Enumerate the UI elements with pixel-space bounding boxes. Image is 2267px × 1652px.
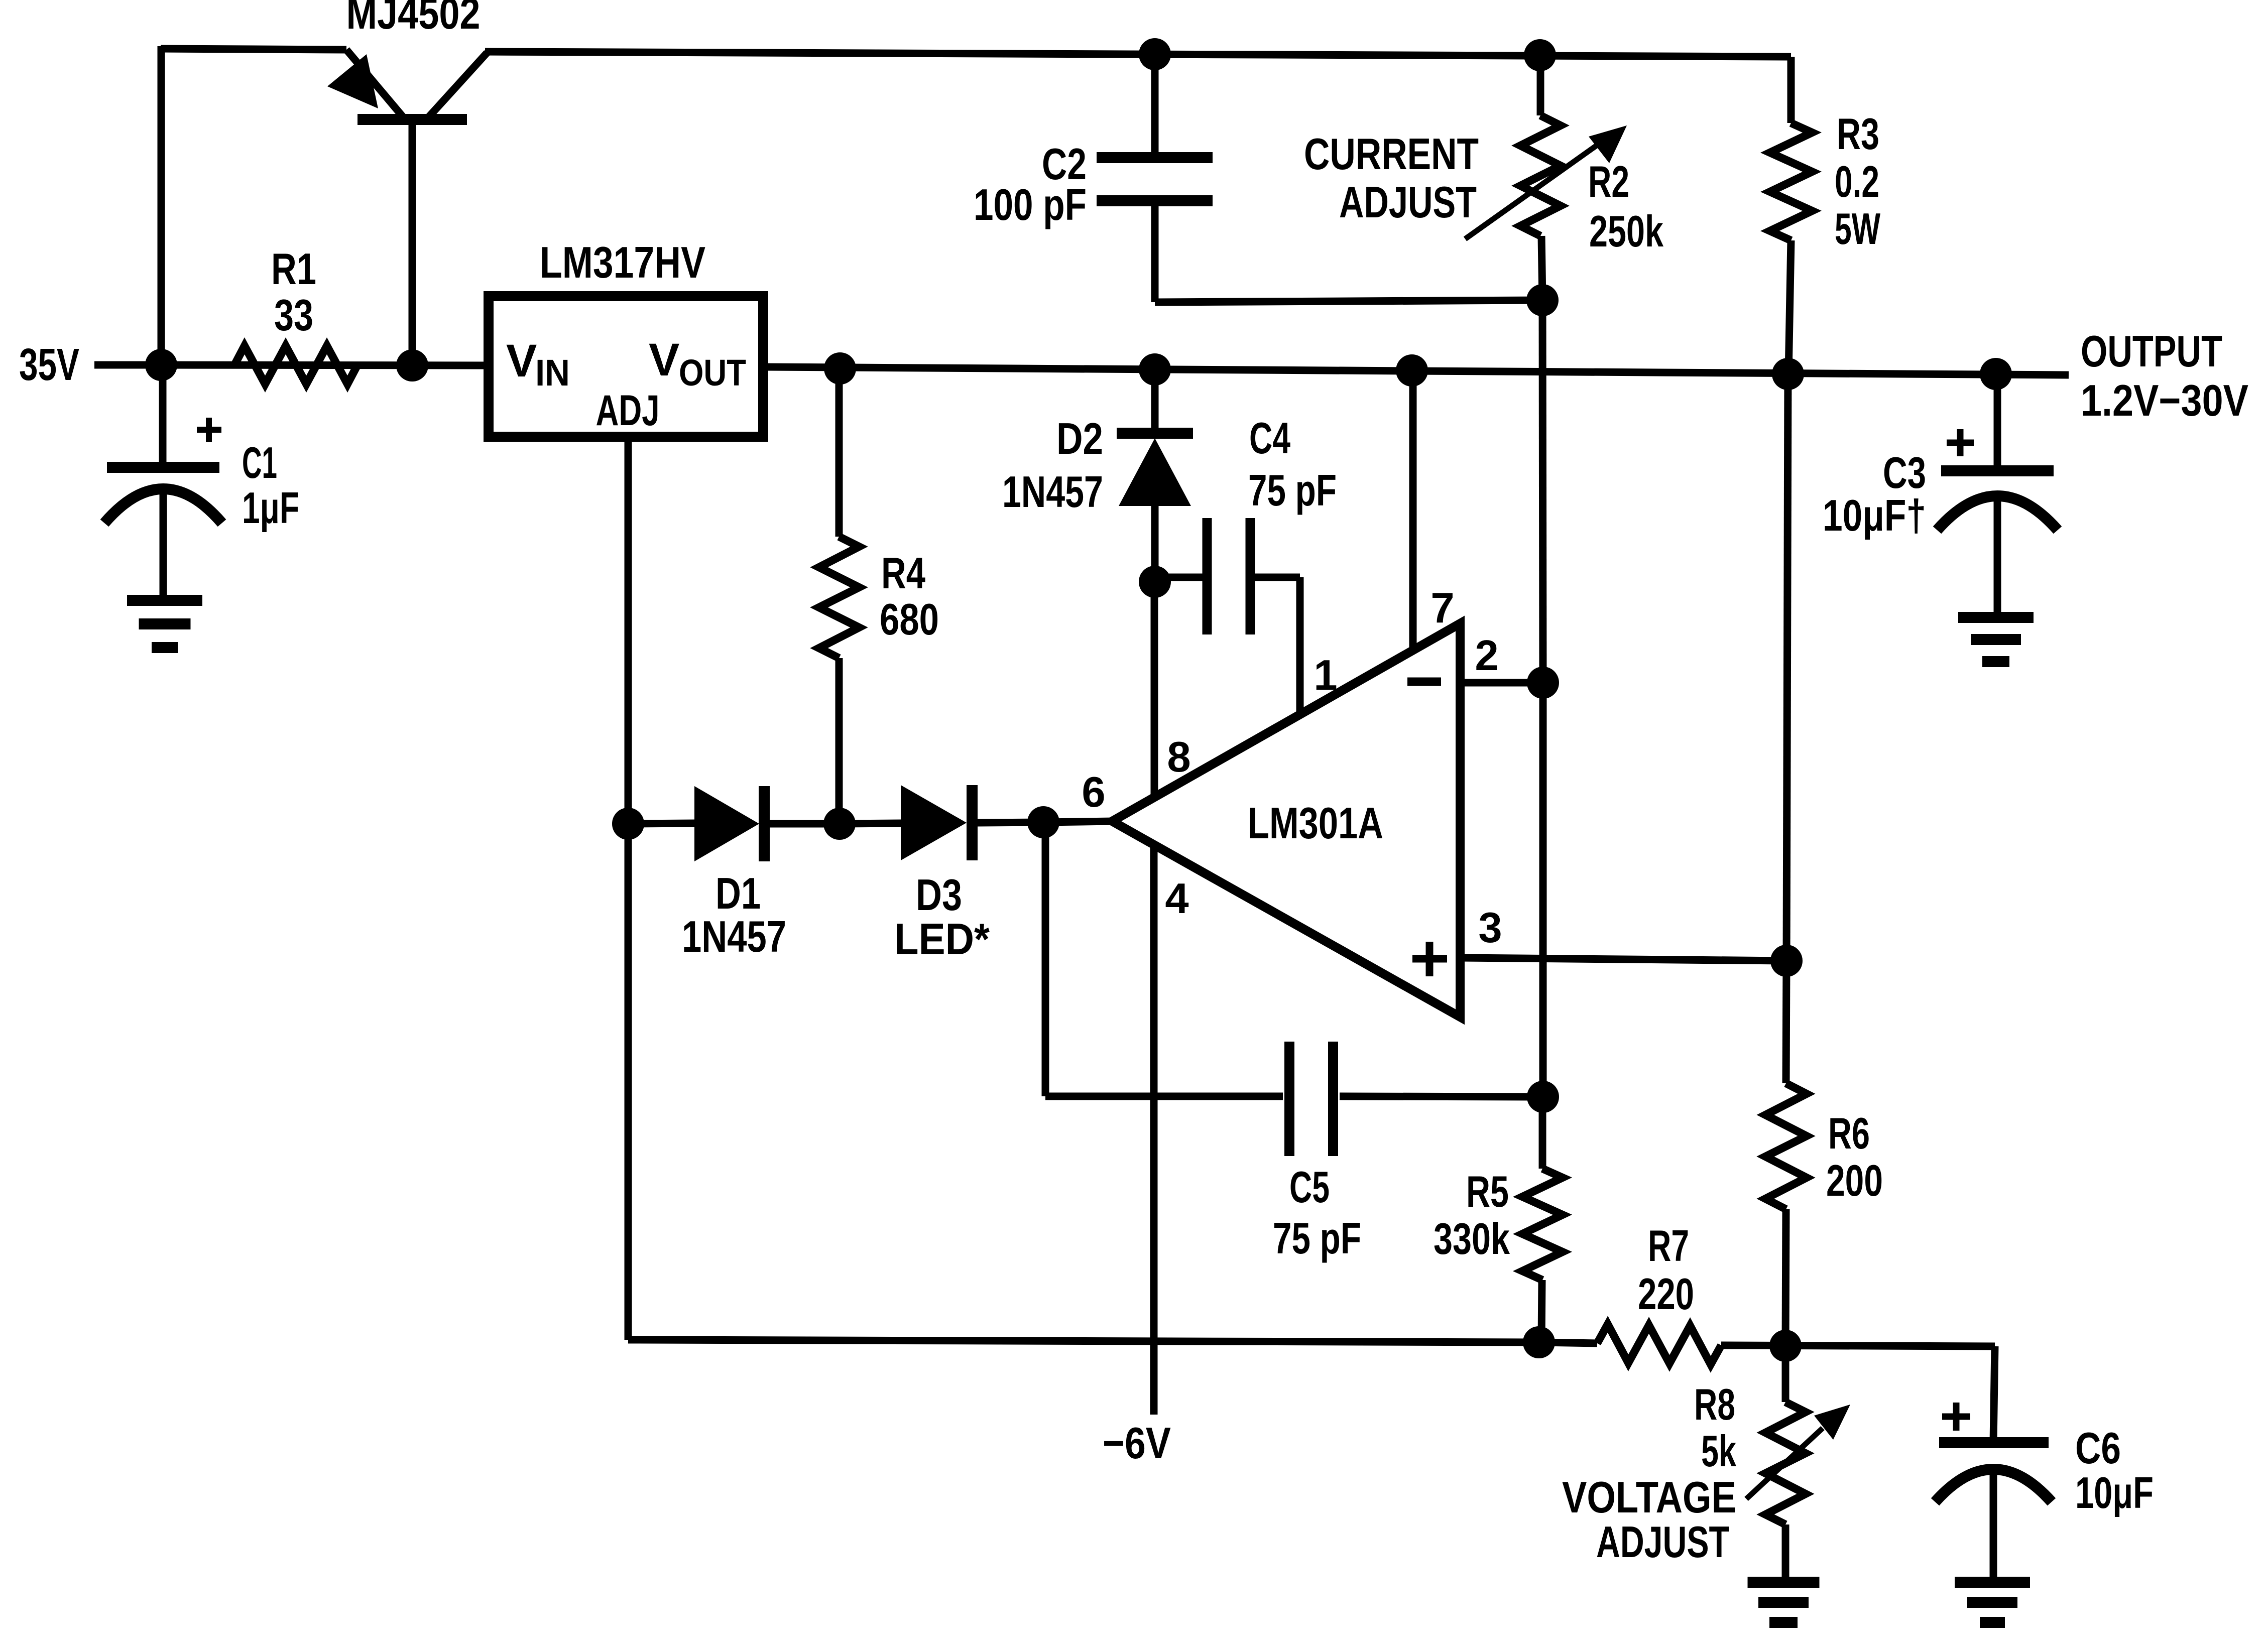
- svg-text:R3: R3: [1837, 109, 1879, 159]
- label -6V: [1103, 1418, 1171, 1468]
- label R6 value: [1826, 1156, 1883, 1205]
- wire main rail left: [161, 365, 489, 365]
- regulator U1 LM317HV: [489, 296, 763, 437]
- pin label 8: [1167, 733, 1190, 781]
- label C5 value: [1273, 1213, 1361, 1263]
- wire to pin6: [1043, 821, 1114, 822]
- node D3-opamp: [1027, 806, 1059, 838]
- ground C6: [1955, 1582, 2030, 1622]
- svg-text:680: 680: [880, 594, 939, 644]
- label 35V: [19, 340, 79, 390]
- label D3: [916, 870, 962, 920]
- node 35V junction: [145, 349, 177, 381]
- label LM317HV: [540, 237, 705, 287]
- pin label 7: [1430, 584, 1454, 632]
- node pin2-R2: [1527, 667, 1559, 699]
- resistor R7: [1597, 1324, 1721, 1364]
- svg-text:C5: C5: [1289, 1162, 1330, 1212]
- op-amp plus: [1412, 942, 1447, 976]
- svg-text:7: 7: [1430, 584, 1454, 632]
- svg-text:330k: 330k: [1434, 1214, 1510, 1263]
- node base junction: [396, 349, 428, 382]
- svg-text:220: 220: [1638, 1269, 1694, 1319]
- svg-text:ADJ: ADJ: [596, 387, 660, 435]
- label R5 value: [1434, 1214, 1510, 1263]
- svg-text:OUTPUT: OUTPUT: [2081, 326, 2222, 376]
- node rail-C3: [1980, 358, 2012, 390]
- diode D2 1N457: [1117, 369, 1193, 582]
- svg-text:100 pF: 100 pF: [974, 180, 1087, 229]
- op-amp U2 LM301A: [1112, 623, 1460, 1017]
- label C3 value: [1823, 490, 1926, 540]
- resistor R1: [234, 346, 357, 384]
- wire 35V stub: [94, 361, 161, 369]
- label C6 value: [2075, 1468, 2154, 1517]
- node top-C2: [1139, 38, 1171, 70]
- label R7 value: [1638, 1269, 1694, 1319]
- label R7: [1648, 1221, 1689, 1270]
- svg-text:5k: 5k: [1701, 1426, 1737, 1476]
- label R1 value: [274, 290, 313, 340]
- resistor R3: [1770, 57, 1812, 374]
- wire pin3: [1460, 958, 1786, 961]
- label C4 value: [1248, 465, 1337, 515]
- label C2 value: [974, 180, 1087, 229]
- svg-text:LED*: LED*: [894, 914, 990, 964]
- label D2: [1056, 414, 1103, 463]
- wire pin2-C5 vertical: [1539, 683, 1547, 1097]
- svg-text:D2: D2: [1056, 414, 1103, 463]
- svg-text:33: 33: [274, 290, 313, 340]
- node D1-R4: [823, 808, 856, 840]
- svg-text:1.2V−30V: 1.2V−30V: [2081, 375, 2248, 425]
- svg-text:−6V: −6V: [1103, 1418, 1171, 1468]
- label C3: [1883, 448, 1926, 497]
- svg-text:ADJUST: ADJUST: [1596, 1517, 1729, 1567]
- capacitor C4: [1155, 518, 1300, 717]
- label R3 value2: [1835, 157, 1879, 206]
- wire ADJ vertical: [625, 437, 632, 1340]
- label C2: [1042, 139, 1087, 189]
- node bottom-R5: [1523, 1326, 1555, 1358]
- wire R2-pin2 vertical: [1542, 300, 1543, 683]
- node rail-R3R6: [1772, 358, 1804, 390]
- pin label 2: [1475, 632, 1498, 680]
- label D3 value: [894, 914, 990, 964]
- diode D3 LED: [840, 785, 1043, 860]
- node C2-R2: [1526, 284, 1559, 316]
- pin label 6: [1082, 769, 1105, 816]
- label R8 value: [1701, 1426, 1737, 1476]
- svg-text:6: 6: [1082, 769, 1105, 816]
- svg-text:R7: R7: [1648, 1221, 1689, 1270]
- svg-text:4: 4: [1165, 875, 1188, 923]
- svg-text:V: V: [506, 335, 537, 387]
- wire left vertical: [158, 46, 165, 367]
- label LM301A: [1248, 798, 1383, 848]
- label R3 value3: [1835, 204, 1880, 253]
- node VOUT junction: [824, 352, 856, 385]
- label CURRENT: [1304, 129, 1479, 179]
- svg-text:35V: 35V: [19, 340, 79, 390]
- label D2 value: [1002, 467, 1103, 517]
- label C6: [2075, 1423, 2121, 1473]
- resistor R4: [819, 368, 859, 824]
- svg-text:V: V: [649, 334, 679, 386]
- svg-text:ADJUST: ADJUST: [1339, 177, 1477, 227]
- label OUTPUT range: [2081, 375, 2248, 425]
- label D1: [715, 868, 761, 918]
- svg-text:1N457: 1N457: [682, 912, 786, 961]
- label R2 value: [1589, 206, 1664, 256]
- pin label 1: [1314, 652, 1337, 699]
- label C5: [1289, 1162, 1330, 1212]
- svg-text:75 pF: 75 pF: [1248, 465, 1337, 515]
- svg-text:10μF: 10μF: [2075, 1468, 2154, 1517]
- svg-text:R8: R8: [1694, 1379, 1735, 1429]
- svg-text:R6: R6: [1828, 1108, 1870, 1158]
- svg-text:VOLTAGE: VOLTAGE: [1562, 1472, 1736, 1522]
- potentiometer R2: [1465, 55, 1627, 300]
- svg-text:C6: C6: [2075, 1423, 2121, 1473]
- svg-text:8: 8: [1167, 733, 1190, 781]
- node top-R2: [1524, 39, 1556, 71]
- svg-text:0.2: 0.2: [1835, 157, 1879, 206]
- wire top rail: [485, 52, 1791, 57]
- svg-text:R5: R5: [1466, 1167, 1509, 1216]
- label R5: [1466, 1167, 1509, 1216]
- svg-text:5W: 5W: [1835, 204, 1880, 253]
- svg-text:200: 200: [1826, 1156, 1883, 1205]
- capacitor C3: [1937, 374, 2058, 617]
- capacitor C2: [1097, 54, 1542, 302]
- diode D1 1N457: [628, 786, 840, 861]
- capacitor C5: [1045, 822, 1543, 1156]
- op-amp minus: [1407, 678, 1441, 686]
- pin label 4: [1165, 875, 1188, 923]
- ground R8: [1748, 1582, 1820, 1622]
- label R1: [271, 244, 316, 294]
- resistor R5: [1522, 1097, 1563, 1342]
- svg-text:OUT: OUT: [679, 352, 746, 394]
- svg-text:2: 2: [1475, 632, 1498, 680]
- wire pin2: [1460, 679, 1543, 687]
- svg-text:D1: D1: [715, 868, 761, 918]
- label R8: [1694, 1379, 1735, 1429]
- node C5-R5: [1527, 1081, 1559, 1113]
- label OUTPUT: [2081, 326, 2222, 376]
- label R3: [1837, 109, 1879, 159]
- resistor R6: [1765, 374, 1807, 1344]
- wire pin8 vertical: [1151, 582, 1158, 800]
- wire pin7 vertical: [1409, 370, 1417, 650]
- node rail-pin7: [1396, 354, 1428, 387]
- svg-text:250k: 250k: [1589, 206, 1664, 256]
- label R6: [1828, 1108, 1870, 1158]
- label ADJUST2: [1596, 1517, 1729, 1567]
- pin label 3: [1478, 904, 1502, 952]
- node R7-R8: [1769, 1330, 1802, 1362]
- label MJ4502: [346, 0, 481, 38]
- svg-text:1N457: 1N457: [1002, 467, 1103, 517]
- svg-text:D3: D3: [916, 870, 962, 920]
- svg-text:R4: R4: [881, 548, 925, 598]
- pin label VOUT: [649, 334, 746, 394]
- node pin3-R6: [1770, 945, 1803, 977]
- label ADJUST: [1339, 177, 1477, 227]
- label R4: [881, 548, 925, 598]
- node ADJ-D1: [612, 808, 644, 840]
- label VOLTAGE: [1562, 1472, 1736, 1522]
- node rail-D2: [1139, 353, 1171, 386]
- label R4 value: [880, 594, 939, 644]
- wire bottom R5-R7: [1539, 1342, 1597, 1343]
- svg-text:1: 1: [1314, 652, 1337, 699]
- label C1 value: [242, 483, 299, 533]
- capacitor C6: [1935, 1346, 2052, 1582]
- svg-text:C4: C4: [1249, 413, 1290, 463]
- svg-text:3: 3: [1478, 904, 1502, 952]
- capacitor C1: [104, 365, 222, 600]
- label R2: [1588, 157, 1629, 206]
- label C4: [1249, 413, 1290, 463]
- wire R7-C6: [1721, 1345, 1995, 1346]
- svg-text:R2: R2: [1588, 157, 1629, 206]
- svg-text:CURRENT: CURRENT: [1304, 129, 1479, 179]
- svg-text:IN: IN: [535, 352, 570, 394]
- wire bottom rail: [628, 1340, 1539, 1342]
- svg-text:10μF†: 10μF†: [1823, 490, 1926, 540]
- pin label ADJ: [596, 387, 660, 435]
- ground C1: [127, 600, 202, 648]
- wire pin4 -6V vertical: [1150, 847, 1158, 1415]
- svg-text:75 pF: 75 pF: [1273, 1213, 1361, 1263]
- svg-text:LM301A: LM301A: [1248, 798, 1383, 848]
- svg-text:1μF: 1μF: [242, 483, 299, 533]
- label C1: [242, 438, 277, 487]
- svg-text:MJ4502: MJ4502: [346, 0, 481, 38]
- svg-text:R1: R1: [271, 244, 316, 294]
- transistor Q1 MJ4502: [161, 49, 487, 367]
- pin label VIN: [506, 335, 570, 394]
- node D2-C4: [1139, 566, 1171, 598]
- label D1 value: [682, 912, 786, 961]
- svg-text:C1: C1: [242, 438, 277, 487]
- svg-text:LM317HV: LM317HV: [540, 237, 705, 287]
- wire main rail right: [763, 367, 2069, 375]
- ground C3: [1958, 617, 2034, 662]
- potentiometer R8: [1746, 1346, 1850, 1582]
